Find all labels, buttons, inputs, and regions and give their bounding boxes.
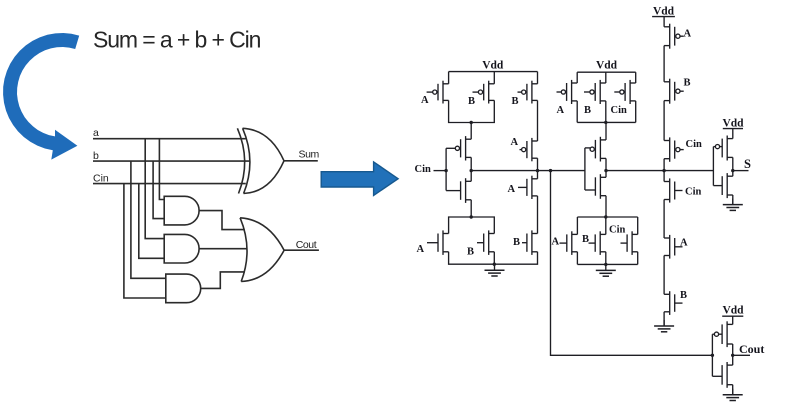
wire bbox=[605, 217, 607, 234]
pmos A (series branch) bbox=[520, 138, 538, 161]
ground bbox=[596, 264, 616, 276]
svg-text:Cout: Cout bbox=[739, 342, 764, 356]
wire bbox=[732, 316, 734, 324]
nmos U-Cout (inverter) bbox=[722, 362, 733, 388]
wire bbox=[605, 122, 607, 139]
wire bbox=[663, 312, 665, 326]
node series bbox=[536, 169, 539, 172]
wire pulldown top rail bbox=[577, 216, 637, 218]
wire Cin gate vertical bbox=[445, 148, 447, 190]
svg-text:B: B bbox=[582, 234, 589, 245]
and gate U2 bbox=[164, 196, 199, 225]
wire bbox=[470, 200, 472, 217]
node Sbar bbox=[604, 169, 607, 172]
Vdd line (Cout inverter) bbox=[722, 315, 743, 317]
svg-text:Vdd: Vdd bbox=[596, 60, 618, 72]
wire bbox=[448, 72, 450, 84]
pmos B (series sum) bbox=[664, 79, 684, 104]
ground bbox=[723, 199, 743, 211]
wire bbox=[576, 217, 578, 234]
node ground bbox=[493, 263, 496, 266]
wire pullup bottom rail bbox=[577, 121, 636, 123]
wire bbox=[605, 196, 607, 217]
svg-text:A: A bbox=[508, 184, 516, 195]
wire bbox=[576, 72, 578, 83]
svg-text:Cout: Cout bbox=[296, 239, 317, 251]
wire bbox=[635, 72, 637, 83]
wire AND1 to OR bbox=[199, 211, 245, 230]
wire Cin tap to AND3 bbox=[124, 184, 166, 298]
wire bbox=[663, 200, 665, 239]
nmos A (pair) bbox=[427, 230, 449, 255]
svg-text:B: B bbox=[512, 96, 519, 107]
wire S output bbox=[733, 170, 749, 172]
and gate U4 bbox=[166, 274, 201, 303]
wire gate line Cout inv bbox=[711, 334, 713, 376]
wire bbox=[449, 100, 495, 122]
svg-text:B: B bbox=[467, 247, 474, 258]
node nmos join bbox=[470, 215, 473, 218]
wire b tap to AND3 bbox=[131, 161, 166, 278]
wire bbox=[576, 101, 578, 123]
wire bus Sbar bbox=[606, 170, 713, 172]
node Cout bbox=[731, 354, 734, 357]
ground bbox=[485, 264, 505, 276]
wire Cout output bbox=[733, 354, 750, 356]
svg-text:B: B bbox=[468, 96, 475, 107]
wire stub bbox=[713, 185, 722, 187]
pmos A (series sum) bbox=[664, 24, 684, 49]
wire pmos gate stub bbox=[585, 147, 590, 149]
svg-text:S: S bbox=[744, 157, 751, 171]
svg-text:Sum: Sum bbox=[299, 149, 320, 161]
node Coutbar left bbox=[470, 169, 473, 172]
wire ground rail bbox=[449, 252, 538, 264]
nmos U-S (inverter) bbox=[722, 173, 733, 198]
wire bbox=[732, 385, 734, 395]
svg-text:Cin: Cin bbox=[611, 105, 628, 116]
wire a tap to AND1 bbox=[159, 139, 164, 200]
nmos B (series sum) bbox=[664, 291, 682, 315]
wire bbox=[663, 256, 665, 295]
wire bbox=[732, 129, 734, 139]
wire stub bbox=[719, 333, 723, 335]
nmos Cin (series sum) bbox=[664, 178, 682, 202]
wire bbox=[537, 196, 539, 234]
svg-text:B: B bbox=[584, 105, 591, 116]
svg-text:A: A bbox=[684, 29, 692, 40]
svg-text:Vdd: Vdd bbox=[482, 60, 504, 72]
node pulldown gnd bbox=[604, 263, 607, 266]
nmos Cin bbox=[446, 178, 471, 203]
wire bbox=[663, 101, 665, 141]
node join pair bbox=[470, 121, 473, 124]
wire Coutbar drop bbox=[551, 171, 713, 356]
svg-text:A: A bbox=[552, 237, 560, 248]
svg-text:Cin: Cin bbox=[93, 173, 109, 185]
pmos B (series branch) bbox=[518, 81, 538, 104]
wire stub bbox=[720, 146, 723, 148]
Vdd rail (left group) bbox=[449, 71, 538, 73]
svg-text:A: A bbox=[421, 95, 429, 106]
svg-text:Sum = a + b + Cin: Sum = a + b + Cin bbox=[93, 27, 261, 53]
curved arrow bbox=[3, 33, 79, 160]
nmos B (pair) bbox=[477, 230, 494, 255]
wire Sum output bbox=[284, 160, 318, 162]
svg-text:A: A bbox=[511, 137, 519, 148]
pmos U-S (inverter) bbox=[722, 136, 733, 161]
svg-text:Cin: Cin bbox=[415, 164, 432, 175]
pmos Cin (series sum) bbox=[664, 137, 684, 161]
block arrow bbox=[321, 162, 398, 196]
wire Cin lead bbox=[434, 170, 447, 172]
wire bbox=[493, 72, 495, 84]
nmos B (sum pulldown) bbox=[589, 231, 606, 255]
wire gate line S inv bbox=[712, 147, 714, 186]
wire bbox=[470, 157, 472, 170]
svg-text:Cin: Cin bbox=[685, 187, 702, 198]
wire bbox=[605, 158, 607, 177]
wire bbox=[537, 158, 539, 170]
wire bbox=[663, 17, 665, 27]
wire pulldown bottom rail bbox=[577, 263, 637, 265]
Vdd line (series column) bbox=[652, 16, 675, 18]
wire bbox=[470, 171, 472, 182]
svg-text:Vdd: Vdd bbox=[653, 6, 675, 18]
wire b bbox=[93, 160, 250, 162]
node Cin gate bbox=[444, 169, 447, 172]
wire b tap to AND1 bbox=[153, 161, 164, 219]
wire bbox=[732, 195, 734, 205]
wire a tap to AND2 bbox=[145, 139, 164, 239]
pmos A (sum pullup) bbox=[557, 80, 578, 104]
svg-text:a: a bbox=[93, 127, 99, 139]
wire bbox=[493, 252, 495, 264]
pmos Coutbar (sum stage) bbox=[590, 137, 606, 162]
wire bbox=[732, 157, 734, 176]
wire nmos gate stub bbox=[585, 189, 596, 191]
svg-text:B: B bbox=[513, 237, 520, 248]
wire bbox=[605, 72, 607, 83]
wire bbox=[663, 159, 665, 182]
pmos B (pair) bbox=[473, 81, 495, 104]
wire Cin bbox=[93, 183, 246, 185]
svg-text:Cin: Cin bbox=[609, 225, 626, 236]
wire bus Coutbar bbox=[471, 170, 585, 172]
wire stub bbox=[713, 146, 715, 148]
svg-text:Cin: Cin bbox=[686, 139, 703, 150]
node Cout inverter input bbox=[711, 354, 714, 357]
wire bbox=[732, 344, 734, 365]
Vdd line (S inverter) bbox=[723, 128, 743, 130]
wire bbox=[637, 217, 639, 234]
bubble bbox=[714, 332, 718, 336]
pmos B (sum pullup) bbox=[584, 80, 606, 104]
Vdd rail (middle) bbox=[577, 71, 636, 73]
node Coutbar drop bbox=[549, 169, 552, 172]
wire bbox=[663, 46, 665, 82]
wire bbox=[537, 72, 539, 84]
bubble bbox=[715, 145, 719, 149]
wire bbox=[537, 100, 539, 141]
svg-text:A: A bbox=[680, 238, 688, 249]
node S bbox=[731, 169, 734, 172]
wire AND3 to OR bbox=[201, 272, 245, 289]
wire Cout output bbox=[284, 249, 319, 251]
nmos Cin (sum pulldown) bbox=[621, 231, 638, 255]
wire AND2 to OR bbox=[199, 248, 247, 250]
xor gate U1 (Sum) bbox=[237, 128, 284, 193]
svg-text:B: B bbox=[684, 78, 691, 89]
svg-text:Vdd: Vdd bbox=[722, 118, 744, 130]
nmos A (series branch) bbox=[518, 176, 538, 199]
wire bbox=[537, 171, 539, 179]
svg-text:A: A bbox=[417, 244, 425, 255]
wire gate line (middle pair) bbox=[584, 148, 586, 190]
wire bbox=[605, 101, 607, 123]
ground bbox=[654, 320, 674, 332]
nmos Coutbar (sum stage) bbox=[595, 174, 606, 199]
svg-text:Vdd: Vdd bbox=[722, 305, 744, 317]
or gate U5 (Cout) bbox=[240, 218, 284, 282]
ground bbox=[723, 389, 743, 401]
wire bbox=[576, 252, 578, 265]
svg-text:b: b bbox=[93, 150, 99, 162]
wire bbox=[637, 252, 639, 265]
wire bbox=[605, 252, 607, 265]
pmos A (pair) bbox=[427, 81, 449, 104]
nmos B (series branch) bbox=[522, 230, 538, 255]
svg-text:A: A bbox=[557, 105, 565, 116]
svg-text:B: B bbox=[680, 290, 687, 301]
wire Cin tap to AND2 bbox=[139, 184, 164, 259]
nmos A (sum pulldown) bbox=[560, 231, 578, 255]
pmos U-Cout (inverter) bbox=[722, 321, 733, 347]
node series right bbox=[662, 169, 665, 172]
wire join2 bbox=[449, 217, 495, 234]
pmos Cin (series) bbox=[446, 136, 471, 160]
node pulldown bbox=[604, 215, 607, 218]
wire stub bbox=[712, 375, 722, 377]
wire a bbox=[93, 138, 246, 140]
wire bbox=[635, 101, 637, 123]
wire bbox=[470, 123, 472, 140]
wire stub bbox=[712, 333, 714, 335]
pmos Cin (sum pullup) bbox=[614, 80, 635, 104]
node pullup bbox=[604, 121, 607, 124]
nmos A (series sum) bbox=[664, 235, 682, 259]
and gate U3 bbox=[164, 234, 199, 263]
